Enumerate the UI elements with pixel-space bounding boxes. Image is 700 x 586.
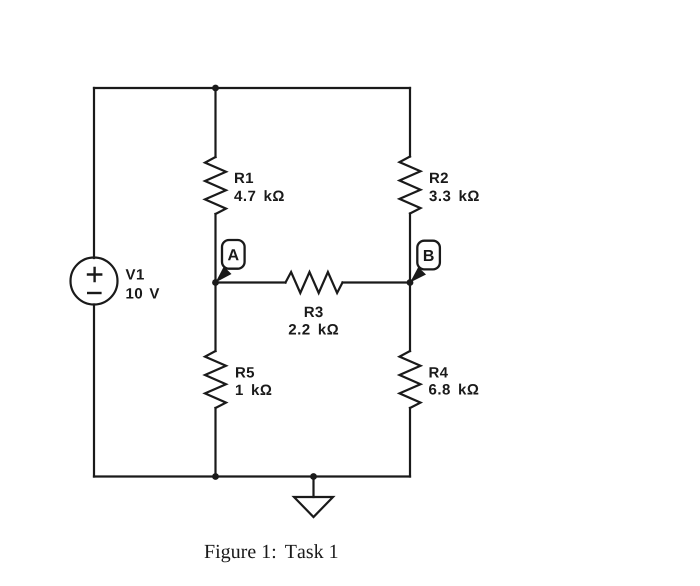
resistor R4 zigzag <box>400 351 421 408</box>
label R4 value 6.8 kOhm <box>429 384 478 395</box>
wire right branch bottom lead <box>409 408 411 477</box>
label R5 designator <box>236 367 254 377</box>
voltage source V1 circle <box>71 258 118 305</box>
junction dot bottom of left branch <box>212 473 219 480</box>
label R2 value 3.3 kOhm <box>429 190 479 201</box>
junction dot node B <box>407 279 414 286</box>
voltage source V1 plus sign <box>87 267 103 283</box>
ground symbol stub <box>312 477 314 498</box>
label R3 value 2.2 kOhm <box>289 324 338 335</box>
junction dot ground connection <box>310 473 317 480</box>
wire top-left vertical rail <box>93 88 95 258</box>
label V1 designator <box>126 269 144 279</box>
label R4 designator <box>430 367 448 377</box>
node B callout box <box>417 241 440 270</box>
resistor R2 zigzag <box>400 157 421 214</box>
label R1 value 4.7 kOhm <box>234 190 284 201</box>
voltage source V1 minus sign <box>87 292 102 294</box>
wire bottom horizontal <box>94 475 410 477</box>
wire left branch bottom lead <box>214 408 216 477</box>
resistor R5 zigzag <box>205 351 226 408</box>
caption Figure 1: Task 1 <box>205 544 338 562</box>
junction dot top of left branch <box>212 85 219 92</box>
node B callout pointer <box>410 267 426 283</box>
wire node A to R5 <box>214 283 216 352</box>
label R2 designator <box>430 173 448 184</box>
wire node A to R3 <box>216 281 286 283</box>
label R5 value 1 kOhm <box>236 384 271 395</box>
resistor R1 zigzag <box>205 157 226 214</box>
wire right branch top lead <box>409 88 411 157</box>
wire top horizontal <box>94 87 410 89</box>
ground symbol triangle <box>294 497 333 517</box>
label R1 designator <box>235 173 253 183</box>
wire right branch R2 to node B <box>409 214 411 283</box>
wire left rail bottom <box>93 305 95 477</box>
wire left branch top lead <box>214 88 216 157</box>
wire node B to R4 <box>409 283 411 352</box>
node A callout box <box>222 240 245 269</box>
label R3 designator <box>305 307 323 318</box>
label V1 value 10 V <box>126 288 159 299</box>
node A letter <box>228 249 239 260</box>
wire left branch R1 to node A <box>214 214 216 283</box>
node A callout pointer <box>216 267 232 283</box>
wire R3 to node B <box>343 281 411 283</box>
junction dot node A <box>212 279 219 286</box>
node B letter <box>424 250 434 261</box>
resistor R3 zigzag <box>286 272 343 293</box>
